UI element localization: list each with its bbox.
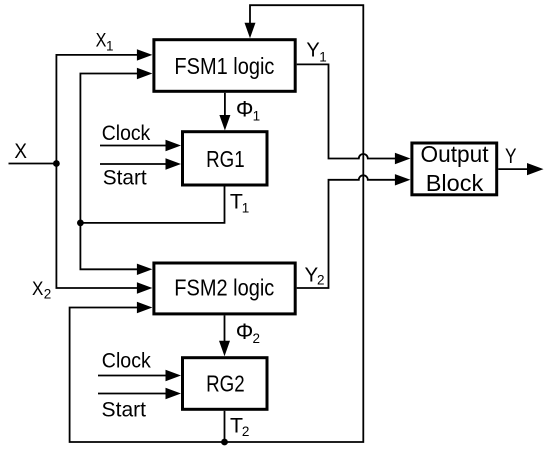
arrowhead Y output	[527, 163, 544, 175]
svg-text:Y: Y	[306, 40, 319, 62]
wire Y output	[498, 168, 530, 170]
arrowhead Phi2 into RG2	[219, 341, 230, 357]
svg-text:1: 1	[242, 200, 250, 215]
svg-text:2: 2	[253, 331, 261, 346]
arrowhead into FSM1 top	[245, 23, 256, 39]
wire Clock into RG1	[100, 145, 172, 147]
wire Start into RG2	[98, 393, 172, 395]
arrowhead X1 into FSM1	[137, 49, 153, 60]
svg-text:2: 2	[44, 287, 52, 302]
wire X bus: X1 branch, left vertical, X2 branch	[56, 55, 145, 288]
svg-text:X: X	[14, 139, 27, 163]
box RG2	[183, 358, 268, 410]
svg-text:1: 1	[319, 50, 327, 65]
wire T1 feedback bus: FSM1 input 2, vertical, FSM2 input 1	[80, 74, 145, 270]
svg-text:2: 2	[242, 424, 250, 439]
wire T1 from RG1 bottom	[80, 187, 224, 223]
svg-text:1: 1	[106, 38, 114, 53]
arrowhead Start into RG1	[166, 158, 182, 169]
svg-text:Block: Block	[426, 170, 484, 196]
junction dot X bus	[53, 160, 60, 167]
arrowhead Y2 into Output Block	[395, 174, 411, 185]
box FSM1 logic	[154, 40, 295, 92]
box Output Block	[412, 143, 497, 195]
svg-text:Clock: Clock	[102, 122, 151, 145]
svg-text:FSM2 logic: FSM2 logic	[174, 275, 274, 301]
wire Phi1 FSM1 to RG1	[224, 93, 226, 122]
svg-text:Start: Start	[102, 398, 147, 421]
junction dot T2 bus	[221, 439, 228, 446]
junction dot T1 bus	[77, 220, 84, 227]
box RG1	[183, 132, 268, 185]
svg-text:RG1: RG1	[206, 146, 245, 172]
svg-text:X: X	[96, 31, 107, 52]
wire Phi2 FSM2 to RG2	[224, 315, 226, 348]
svg-text:RG2: RG2	[206, 371, 245, 397]
arrowhead Clock into RG1	[166, 140, 182, 151]
arrowhead Start into RG2	[166, 388, 182, 399]
svg-text:Start: Start	[103, 167, 147, 190]
arrowhead FSM2 input 1	[137, 264, 153, 275]
arrowhead Clock into RG2	[166, 370, 182, 381]
arrowhead X2 into FSM2	[137, 282, 153, 293]
arrowhead Y1 into Output Block	[395, 153, 411, 164]
box FSM2 logic	[154, 263, 295, 314]
svg-text:2: 2	[317, 273, 325, 288]
svg-text:Φ: Φ	[236, 319, 254, 344]
wire Y1 FSM1 to Output Block with hop	[297, 64, 402, 158]
svg-text:1: 1	[253, 109, 261, 124]
wire feedback loop: FSM1 top drop, top run, right run, bottom run, up-left to FSM2 input 3	[70, 5, 364, 442]
wire Y2 FSM2 to Output Block with hop	[297, 175, 402, 288]
wire X input	[9, 163, 57, 165]
svg-text:Clock: Clock	[102, 350, 151, 373]
arrowhead FSM2 input 3	[137, 302, 153, 313]
svg-text:X: X	[32, 279, 44, 300]
wire Start into RG1	[100, 163, 172, 165]
svg-text:Φ: Φ	[236, 97, 254, 122]
arrowhead Phi1 into RG1	[219, 115, 230, 131]
svg-text:FSM1 logic: FSM1 logic	[174, 53, 274, 79]
wire T2 from RG2 bottom	[224, 411, 226, 442]
wire Clock into RG2	[98, 375, 172, 377]
arrowhead FSM1 input 2	[137, 68, 153, 79]
svg-text:Output: Output	[421, 141, 489, 167]
svg-text:Y: Y	[505, 144, 517, 168]
